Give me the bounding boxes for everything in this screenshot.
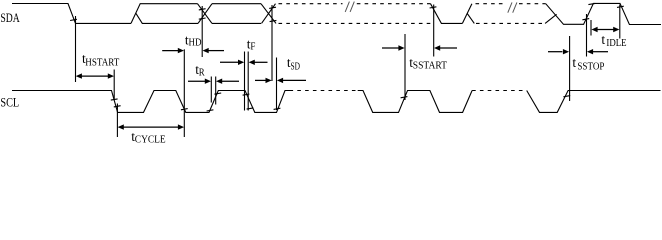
svg-text:SDA: SDA [0,11,19,25]
svg-text:IDLE: IDLE [606,38,626,49]
svg-text:t: t [601,32,605,47]
svg-text:SD: SD [291,62,301,73]
svg-text:HSTART: HSTART [85,57,119,68]
svg-text:SSTOP: SSTOP [577,62,604,73]
svg-text:t: t [572,55,576,70]
svg-text:R: R [199,67,205,78]
svg-text:SSTART: SSTART [413,60,447,71]
svg-text:SCL: SCL [0,96,19,110]
svg-text:CYCLE: CYCLE [135,135,166,146]
svg-text:HD: HD [189,38,202,49]
svg-text:F: F [250,42,255,53]
